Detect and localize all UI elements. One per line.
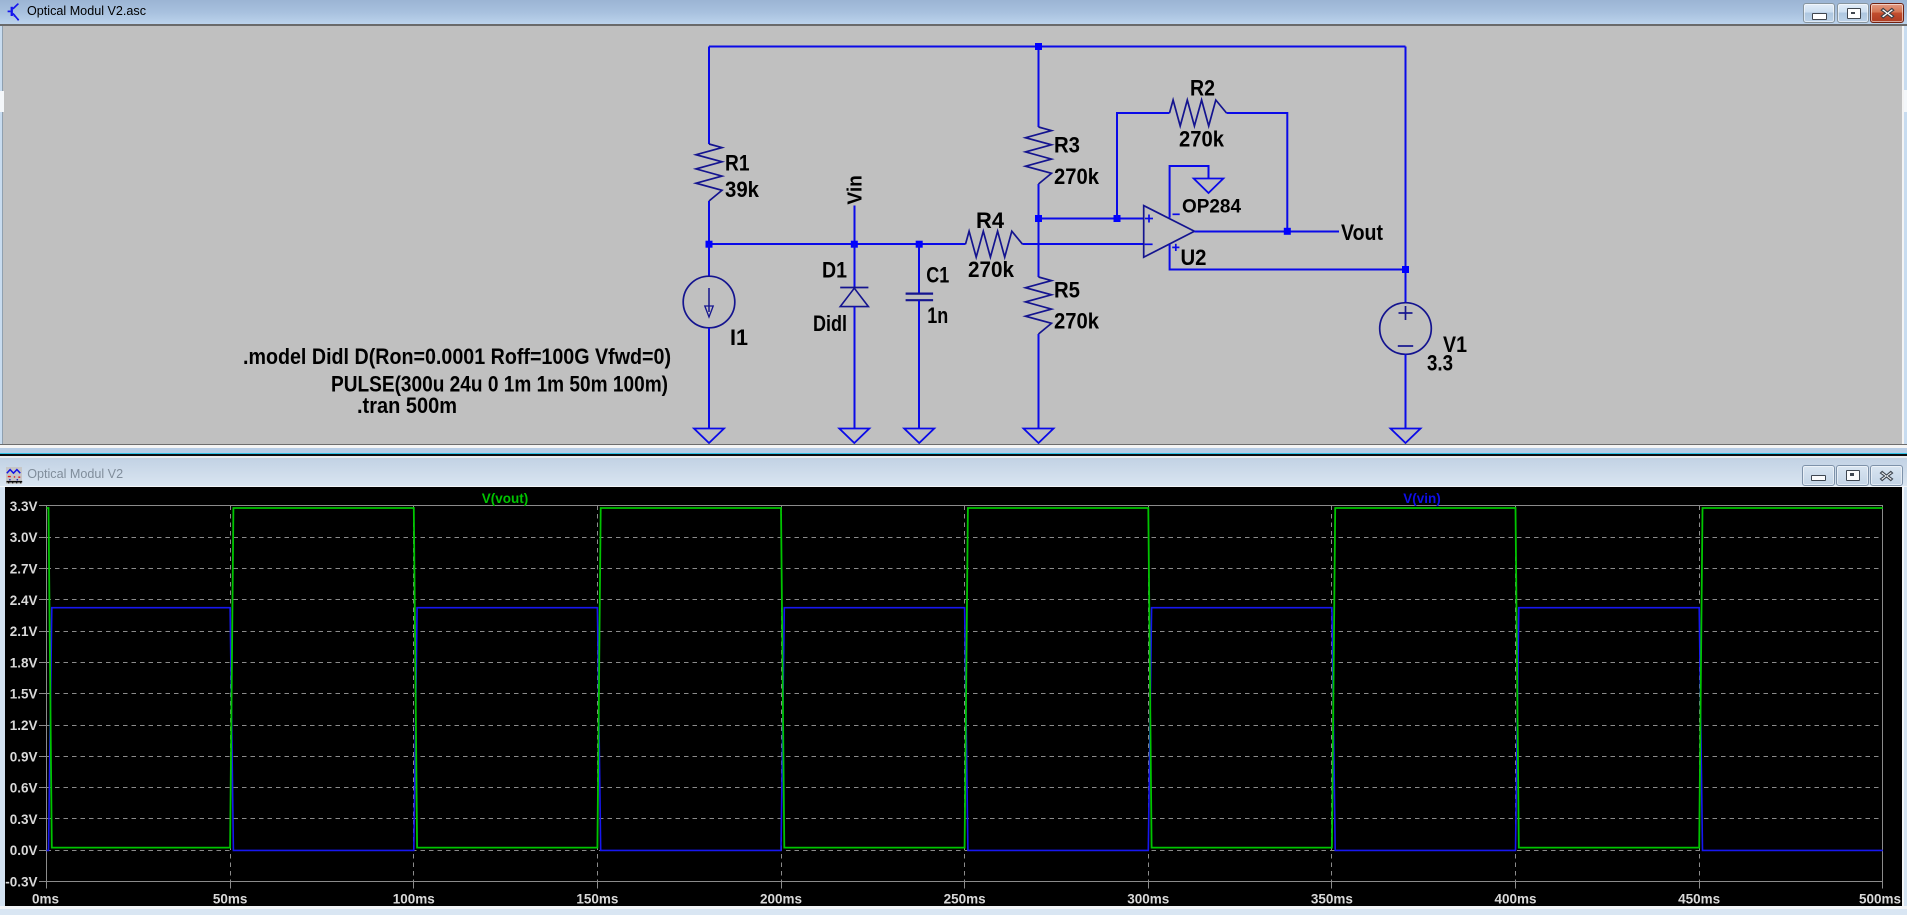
ground I1 bbox=[694, 429, 724, 444]
vertical gridlines dashed bbox=[230, 506, 232, 882]
junction R3/R5 node bbox=[1035, 215, 1042, 222]
schematic canvas bbox=[3, 26, 1902, 444]
wire R1 bottom to node bbox=[708, 201, 710, 244]
svg-text:I1: I1 bbox=[730, 325, 748, 350]
svg-text:3.0V: 3.0V bbox=[10, 530, 38, 545]
svg-text:Didl: Didl bbox=[813, 311, 847, 336]
svg-text:Vin: Vin bbox=[845, 175, 867, 205]
junction output/R2 bbox=[1284, 228, 1291, 235]
svg-text:0.0V: 0.0V bbox=[10, 843, 38, 858]
wire op-amp output bbox=[1194, 230, 1339, 232]
wire left drop to R1 bbox=[708, 47, 710, 145]
svg-text:50ms: 50ms bbox=[213, 892, 248, 907]
title bar top window bbox=[0, 0, 1907, 24]
plot frame solid bbox=[47, 506, 1883, 882]
diode D1 bbox=[853, 244, 855, 287]
op-amp V- power pin wire bbox=[1170, 166, 1209, 218]
svg-text:100ms: 100ms bbox=[393, 892, 435, 907]
svg-text:2.4V: 2.4V bbox=[10, 593, 38, 608]
resistor R1 bbox=[696, 144, 722, 201]
resistor R3 bbox=[1026, 127, 1052, 184]
svg-text:R1: R1 bbox=[725, 151, 750, 176]
svg-text:V(vin): V(vin) bbox=[1403, 491, 1441, 506]
op-amp V+ power pin wire bbox=[1170, 244, 1406, 269]
bottom window bottom frame bbox=[0, 906, 1907, 909]
svg-text:D1: D1 bbox=[822, 258, 847, 283]
titlebar bottom edge bbox=[0, 486, 1907, 488]
svg-text:R5: R5 bbox=[1054, 278, 1080, 303]
current source I1 bbox=[708, 244, 710, 276]
svg-text:OP284: OP284 bbox=[1182, 197, 1241, 218]
svg-text:270k: 270k bbox=[1054, 164, 1100, 189]
svg-text:150ms: 150ms bbox=[576, 892, 618, 907]
schematic drawing bbox=[0, 0, 1907, 455]
title text bottom bbox=[27, 468, 123, 481]
trace V(vin) blue bbox=[47, 608, 1883, 851]
trace V(vout) green bbox=[47, 508, 1883, 848]
wire R4 to op-amp inverting input bbox=[1023, 243, 1144, 245]
wire R2 right leg bbox=[1227, 113, 1288, 231]
svg-text:400ms: 400ms bbox=[1495, 892, 1537, 907]
svg-text:.model Didl D(Ron=0.0001 Roff=: .model Didl D(Ron=0.0001 Roff=100G Vfwd=… bbox=[243, 344, 671, 369]
svg-text:0.3V: 0.3V bbox=[10, 812, 38, 827]
svg-text:3.3: 3.3 bbox=[1427, 351, 1453, 376]
wire R2 left leg bbox=[1117, 113, 1170, 219]
ground op-amp V- bbox=[1194, 179, 1224, 194]
svg-text:3.3V: 3.3V bbox=[10, 499, 38, 514]
svg-text:R3: R3 bbox=[1054, 133, 1080, 158]
scrollbar notches on canvas edges bbox=[0, 91, 4, 113]
wire Vin stub bbox=[853, 206, 855, 245]
svg-text:1.5V: 1.5V bbox=[10, 687, 38, 702]
junction top rail R3 bbox=[1035, 43, 1042, 50]
op-amp U2 bbox=[1144, 206, 1195, 258]
svg-text:2.1V: 2.1V bbox=[10, 624, 38, 639]
svg-text:270k: 270k bbox=[1054, 309, 1100, 334]
svg-text:R2: R2 bbox=[1190, 76, 1215, 101]
ground D1 bbox=[839, 429, 869, 444]
waveform drawing bbox=[0, 455, 1907, 915]
wire R3 bottom to R5 top bbox=[1038, 184, 1040, 277]
node junction left bbox=[706, 241, 713, 248]
svg-text:39k: 39k bbox=[725, 177, 760, 202]
svg-text:1.8V: 1.8V bbox=[10, 655, 38, 670]
svg-text:U2: U2 bbox=[1181, 245, 1207, 270]
resistor R5 bbox=[1026, 277, 1052, 334]
wire V1 to ground bbox=[1405, 354, 1407, 428]
svg-text:350ms: 350ms bbox=[1311, 892, 1353, 907]
window side frames top window bbox=[0, 26, 2, 444]
plot black area bbox=[5, 487, 1902, 906]
svg-text:2.7V: 2.7V bbox=[10, 562, 38, 577]
wire top rail bbox=[709, 46, 1406, 48]
capacitor C1 bbox=[918, 244, 920, 293]
svg-text:C1: C1 bbox=[926, 263, 949, 288]
svg-text:450ms: 450ms bbox=[1678, 892, 1720, 907]
svg-text:0.9V: 0.9V bbox=[10, 749, 38, 764]
separator bands between windows bbox=[0, 444, 1907, 446]
svg-text:Vout: Vout bbox=[1341, 220, 1384, 245]
svg-text:1.2V: 1.2V bbox=[10, 718, 38, 733]
wire to op-amp non-inverting input bbox=[1039, 218, 1144, 220]
title bar bottom window bbox=[0, 458, 1907, 486]
ground V1 bbox=[1391, 429, 1421, 444]
node junction C1 bbox=[916, 241, 923, 248]
wire main node row bbox=[709, 243, 966, 245]
ground R5 bbox=[1024, 429, 1054, 444]
wire C1 to ground bbox=[918, 301, 920, 429]
svg-text:300ms: 300ms bbox=[1127, 892, 1169, 907]
wire R5 to ground bbox=[1038, 334, 1040, 429]
wire I1 to ground bbox=[708, 328, 710, 429]
resistor R2 bbox=[1170, 100, 1227, 126]
svg-text:-0.3V: -0.3V bbox=[5, 875, 37, 890]
svg-text:200ms: 200ms bbox=[760, 892, 802, 907]
svg-text:500ms: 500ms bbox=[1859, 892, 1901, 907]
wire D1 to ground bbox=[853, 307, 855, 429]
wire right rail bbox=[1405, 47, 1407, 303]
titlebar bottom border bbox=[0, 24, 1907, 26]
waveform icon bbox=[6, 467, 23, 484]
junction V1 top bbox=[1402, 266, 1409, 273]
junction R2 left leg bbox=[1114, 215, 1121, 222]
svg-text:1n: 1n bbox=[927, 303, 948, 328]
svg-text:270k: 270k bbox=[1179, 127, 1225, 152]
svg-text:V(vout): V(vout) bbox=[482, 491, 529, 506]
svg-text:0.6V: 0.6V bbox=[10, 781, 38, 796]
title text bbox=[27, 5, 146, 18]
titlebar icon (schematic doc) bbox=[6, 3, 21, 21]
svg-text:.tran 500m: .tran 500m bbox=[357, 393, 457, 418]
node junction D1 bbox=[851, 241, 858, 248]
svg-text:R4: R4 bbox=[976, 208, 1005, 233]
axis tick marks bbox=[39, 505, 47, 507]
svg-text:250ms: 250ms bbox=[944, 892, 986, 907]
voltage source V1 bbox=[1380, 303, 1432, 355]
bottom window side frames bbox=[0, 487, 5, 906]
horizontal gridlines dashed bbox=[47, 537, 1883, 539]
ground C1 bbox=[904, 429, 934, 444]
svg-text:270k: 270k bbox=[968, 257, 1015, 282]
svg-text:0ms: 0ms bbox=[32, 892, 59, 907]
resistor R4 bbox=[966, 231, 1023, 257]
wire R3 top stub bbox=[1038, 47, 1040, 128]
